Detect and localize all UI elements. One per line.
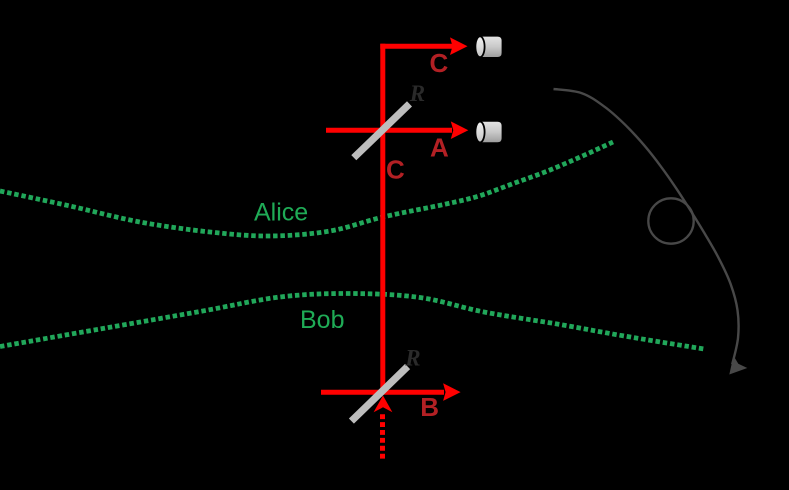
- wire: middle horizontal red beam A: [326, 128, 452, 133]
- time-loop circle: [648, 198, 693, 243]
- svg-text:A: A: [430, 133, 449, 163]
- svg-text:Bob: Bob: [300, 306, 344, 334]
- beam splitter R1 (top): [354, 104, 410, 158]
- Alice worldline (green dotted curve): [0, 142, 613, 236]
- detector D1 (top): [475, 36, 501, 57]
- time-loop curve (gray): [554, 89, 739, 364]
- arrowhead: time-loop arrow: [729, 356, 747, 375]
- beam splitter R2 (bottom): [351, 367, 407, 422]
- wire: dashed red input beam (bottom, pointing up): [380, 414, 385, 459]
- svg-text:C: C: [386, 154, 405, 184]
- svg-text:C: C: [430, 48, 449, 78]
- svg-text:B: B: [420, 392, 439, 422]
- arrowhead: beam B arrow: [443, 383, 461, 401]
- detector D2 (middle): [475, 122, 501, 143]
- svg-text:R: R: [404, 345, 420, 370]
- arrowhead: beam C arrow: [450, 37, 468, 55]
- Bob worldline (green dotted curve): [0, 293, 704, 349]
- arrowhead: beam A arrow: [451, 121, 469, 139]
- wire: bottom horizontal red beam B: [321, 390, 444, 395]
- wire: top horizontal red beam to detector C: [380, 44, 453, 49]
- arrowhead: up arrow of dashed input beam: [374, 396, 393, 413]
- svg-text:R: R: [409, 81, 425, 106]
- svg-text:Alice: Alice: [254, 199, 308, 227]
- wire: vertical red beam from top corner down to bottom beam splitter: [380, 44, 385, 392]
